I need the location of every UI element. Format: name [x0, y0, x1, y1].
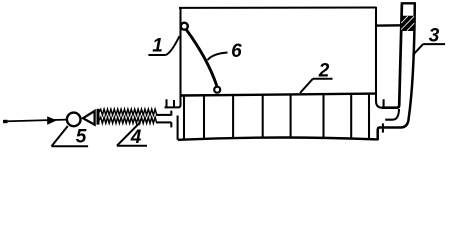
svg-text:4: 4 — [130, 127, 142, 148]
svg-text:3: 3 — [429, 25, 440, 46]
svg-text:6: 6 — [231, 41, 242, 62]
svg-text:2: 2 — [318, 60, 330, 81]
svg-text:5: 5 — [76, 127, 87, 148]
svg-text:1: 1 — [152, 36, 163, 57]
